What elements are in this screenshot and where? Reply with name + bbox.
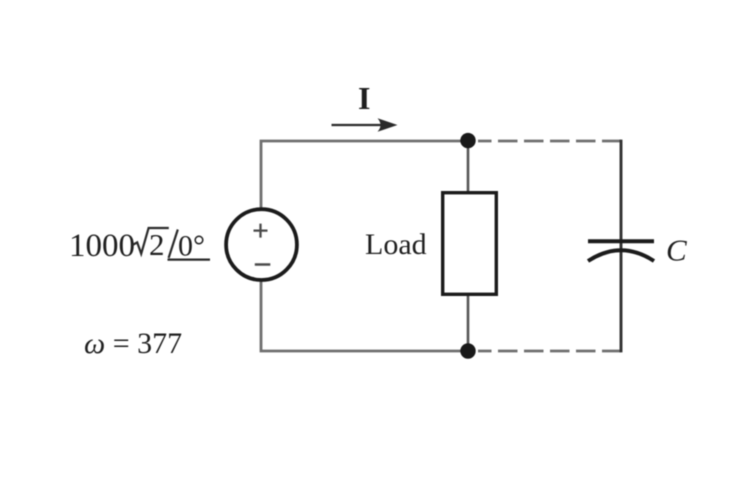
node top junction <box>460 133 475 148</box>
current arrow I <box>332 124 391 126</box>
wire top rail (source to node) <box>261 141 468 209</box>
wire load stub top <box>467 141 470 192</box>
svg-text:C: C <box>666 233 687 268</box>
capacitor C curved bottom plate <box>588 250 654 261</box>
label phasor angle slash <box>169 230 178 259</box>
voltage source VS circle <box>226 209 297 280</box>
label sqrt radical sign <box>132 228 169 254</box>
capacitor C top plate <box>588 239 654 243</box>
svg-text:I: I <box>358 80 370 116</box>
node bottom junction <box>460 343 475 358</box>
label phasor angle underline <box>168 259 211 261</box>
wire capacitor branch vertical <box>620 140 623 353</box>
wire load stub bottom <box>467 295 470 351</box>
svg-text:2: 2 <box>149 227 165 262</box>
svg-text:Load: Load <box>365 228 427 261</box>
svg-text:ω = 377: ω = 377 <box>84 327 182 360</box>
wire bottom rail (source to node) <box>261 280 468 351</box>
wire top dashed (node to capacitor) <box>478 140 621 143</box>
load box <box>443 193 497 295</box>
voltage source minus sign <box>255 263 270 266</box>
wire bottom dashed (node to capacitor) <box>478 350 621 353</box>
svg-text:1000: 1000 <box>69 228 135 264</box>
voltage source plus sign <box>254 224 268 238</box>
svg-text:0°: 0° <box>178 230 205 263</box>
